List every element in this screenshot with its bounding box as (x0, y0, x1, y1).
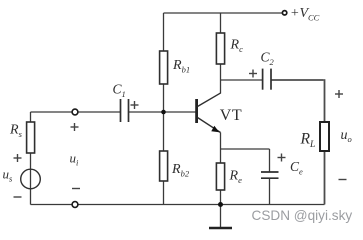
terminal input top (72, 109, 78, 115)
wire RL lower lead to bottom rail (324, 151, 326, 205)
terminal Vcc (282, 11, 286, 15)
wire output branch down to RL (324, 79, 326, 122)
resistor RL (320, 122, 329, 151)
node base junction dot (161, 110, 166, 115)
polarity plus at us (14, 157, 22, 159)
wire C1 to base node to transistor base (129, 111, 196, 113)
resistor Re (216, 163, 224, 190)
svg-text:CSDN @qiyi.sky: CSDN @qiyi.sky (252, 208, 353, 223)
terminal input bottom (72, 202, 78, 208)
wire emitter node to Ce (221, 148, 270, 150)
capacitor Ce plates (261, 172, 279, 178)
resistor Rc (216, 33, 224, 64)
node emitter-ground junction dot (218, 202, 223, 207)
ground (209, 227, 232, 230)
polarity plus at C1 (131, 104, 139, 106)
wire Ce top lead (269, 149, 271, 172)
transistor VT base bar (195, 99, 198, 123)
wire Rs to us source (30, 153, 32, 170)
wire Rc lower lead to collector (220, 64, 222, 93)
capacitor C1 plates (121, 99, 129, 122)
wire emitter down through Re (220, 133, 222, 164)
source us circle (21, 169, 41, 189)
wire Rb2 lower lead (163, 181, 165, 205)
wire ground stem (220, 205, 222, 228)
wire through us source (30, 170, 32, 189)
polarity minus at us (14, 196, 22, 198)
polarity plus at Ce (278, 157, 286, 159)
polarity minus at output (339, 179, 347, 181)
wire us source to bottom rail (30, 189, 32, 205)
wire Rb2 upper lead (163, 112, 165, 151)
wire Rc upper lead (220, 13, 222, 33)
wire Rs top lead (30, 112, 32, 122)
polarity minus at input (72, 188, 80, 190)
transistor VT emitter lead (198, 118, 221, 133)
wire Re to bottom rail (220, 190, 222, 205)
wire input top: source to C1 (31, 111, 121, 113)
resistor Rb2 (160, 151, 168, 181)
polarity plus at output (335, 93, 343, 95)
wire collector node to C2 (221, 79, 263, 81)
transistor VT collector lead (198, 93, 221, 107)
wire bottom rail (31, 204, 325, 206)
resistor Rs (27, 122, 35, 153)
wire C2 to output corner (272, 79, 324, 81)
transistor VT emitter arrow (211, 126, 219, 132)
resistor Rb1 (160, 51, 168, 84)
wire Rb1 lower lead to base node (163, 84, 165, 112)
polarity plus at input (71, 126, 79, 128)
polarity plus at C2 (249, 73, 257, 75)
wire Ce bottom lead (269, 179, 271, 205)
wire Rb1 upper lead (163, 13, 165, 51)
svg-text:VT: VT (220, 107, 242, 124)
wire top rail (164, 12, 283, 14)
capacitor C2 plates (263, 69, 271, 90)
